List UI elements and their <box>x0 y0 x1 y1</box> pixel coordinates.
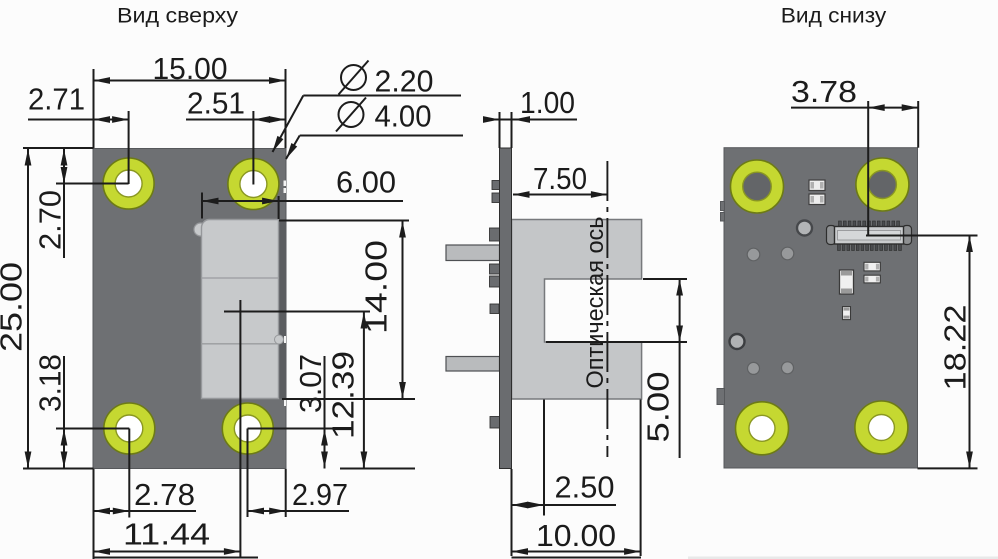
svg-text:3.78: 3.78 <box>791 74 857 109</box>
svg-text:5.00: 5.00 <box>641 372 676 443</box>
svg-text:2.20: 2.20 <box>375 64 434 99</box>
svg-text:2.70: 2.70 <box>33 190 68 250</box>
svg-text:Оптическая ось: Оптическая ось <box>582 217 609 389</box>
svg-text:10.00: 10.00 <box>536 518 616 553</box>
svg-text:11.44: 11.44 <box>123 517 210 552</box>
svg-text:2.97: 2.97 <box>292 477 348 512</box>
svg-text:3.18: 3.18 <box>33 354 68 412</box>
svg-text:4.00: 4.00 <box>375 99 432 134</box>
svg-text:15.00: 15.00 <box>153 51 228 86</box>
svg-text:25.00: 25.00 <box>0 262 29 352</box>
svg-text:14.00: 14.00 <box>359 240 394 334</box>
svg-text:6.00: 6.00 <box>336 165 396 200</box>
svg-text:7.50: 7.50 <box>533 161 587 196</box>
svg-text:1.00: 1.00 <box>520 85 575 120</box>
svg-text:2.71: 2.71 <box>28 82 85 117</box>
svg-text:Вид сверху: Вид сверху <box>117 4 238 28</box>
svg-text:18.22: 18.22 <box>938 305 973 391</box>
svg-text:2.51: 2.51 <box>187 86 245 121</box>
svg-text:Вид снизу: Вид снизу <box>781 4 887 28</box>
svg-text:3.07: 3.07 <box>293 354 328 413</box>
svg-text:2.78: 2.78 <box>134 477 195 512</box>
svg-text:12.39: 12.39 <box>326 351 361 439</box>
svg-text:2.50: 2.50 <box>555 470 615 505</box>
